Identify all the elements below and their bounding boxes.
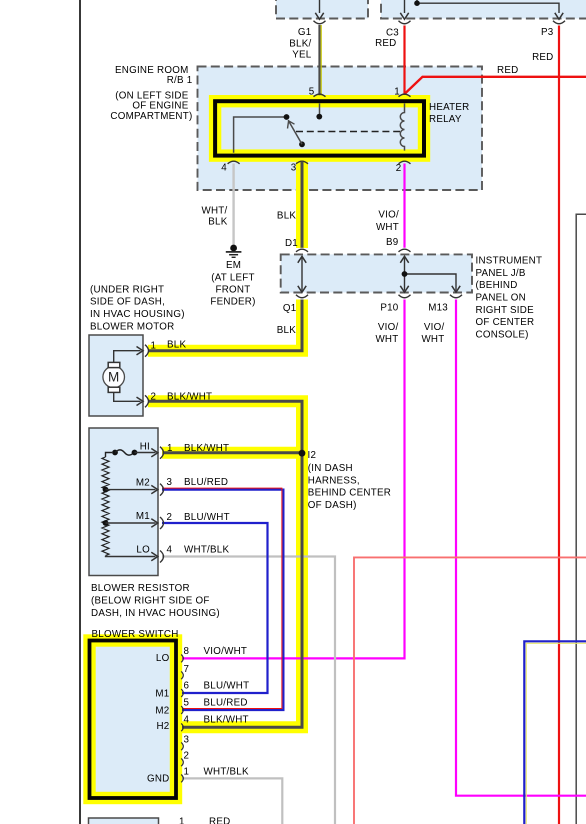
svg-text:2: 2 [167,512,173,523]
svg-text:BLU/RED: BLU/RED [204,697,248,708]
svg-text:(BELOW RIGHT SIDE OF: (BELOW RIGHT SIDE OF [91,596,210,607]
svg-text:HI: HI [140,442,150,453]
svg-text:LO: LO [156,653,170,664]
svg-text:BLK: BLK [167,340,186,351]
svg-text:5: 5 [184,697,190,708]
svg-text:M2: M2 [155,705,169,716]
svg-text:EM: EM [226,260,241,271]
svg-text:I2: I2 [308,450,317,461]
svg-text:4: 4 [221,163,227,174]
svg-text:BLU/RED: BLU/RED [184,477,228,488]
svg-text:RED: RED [209,816,230,824]
svg-text:(IN DASH: (IN DASH [308,463,353,474]
svg-text:OF ENGINE: OF ENGINE [132,101,188,112]
svg-text:WHT/BLK: WHT/BLK [184,545,230,556]
svg-text:BLU/WHT: BLU/WHT [184,512,230,523]
svg-text:R/B 1: R/B 1 [167,75,193,86]
svg-text:M13: M13 [428,302,448,313]
svg-text:BLOWER SWITCH: BLOWER SWITCH [92,629,179,640]
svg-text:M2: M2 [136,478,150,489]
svg-text:RED: RED [375,38,396,49]
svg-text:D1: D1 [285,238,298,249]
svg-text:COMPARTMENT): COMPARTMENT) [110,111,192,122]
svg-text:INSTRUMENT: INSTRUMENT [476,256,543,267]
svg-text:B9: B9 [386,237,398,248]
svg-text:WHT: WHT [421,334,444,345]
svg-text:(UNDER RIGHT: (UNDER RIGHT [90,284,164,295]
svg-text:RED: RED [532,52,553,63]
svg-text:HARNESS,: HARNESS, [308,475,360,486]
svg-text:BLU/WHT: BLU/WHT [204,681,250,692]
svg-text:1: 1 [167,443,173,454]
svg-text:BLK: BLK [277,325,296,336]
svg-text:2: 2 [396,163,402,174]
svg-text:BLOWER MOTOR: BLOWER MOTOR [90,322,174,333]
svg-text:GND: GND [147,773,170,784]
svg-text:4: 4 [167,545,173,556]
svg-text:Q1: Q1 [283,303,297,314]
svg-text:PANEL ON: PANEL ON [476,293,526,304]
svg-text:1: 1 [184,767,190,778]
svg-text:YEL: YEL [292,50,312,61]
svg-text:C3: C3 [386,28,399,39]
svg-text:H2: H2 [156,721,169,732]
svg-text:BLK: BLK [208,217,227,228]
svg-text:3: 3 [184,735,190,746]
svg-text:6: 6 [184,681,190,692]
svg-text:SIDE OF DASH,: SIDE OF DASH, [90,297,165,308]
svg-text:VIO/: VIO/ [378,210,399,221]
svg-text:DASH, IN HVAC HOUSING): DASH, IN HVAC HOUSING) [91,608,220,619]
svg-text:M1: M1 [136,511,150,522]
svg-text:4: 4 [184,715,190,726]
svg-text:RELAY: RELAY [429,114,462,125]
svg-text:G1: G1 [298,27,312,38]
svg-text:IN HVAC HOUSING): IN HVAC HOUSING) [90,309,185,320]
svg-text:1: 1 [151,341,157,352]
svg-text:LO: LO [136,545,150,556]
svg-text:3: 3 [291,163,297,174]
svg-text:BLK: BLK [277,211,296,222]
svg-text:1: 1 [179,816,185,824]
svg-text:BLK/WHT: BLK/WHT [184,443,229,454]
svg-text:BEHIND CENTER: BEHIND CENTER [308,488,391,499]
svg-text:WHT/: WHT/ [201,205,227,216]
svg-text:VIO/: VIO/ [424,322,445,333]
svg-text:2: 2 [151,392,157,403]
svg-text:BLK/: BLK/ [289,39,311,50]
svg-text:VIO/: VIO/ [378,322,399,333]
svg-text:OF CENTER: OF CENTER [476,317,535,328]
svg-text:FRONT: FRONT [216,285,251,296]
svg-text:7: 7 [184,664,190,675]
svg-text:M1: M1 [155,689,169,700]
svg-text:FENDER): FENDER) [210,297,255,308]
svg-text:WHT: WHT [376,222,399,233]
svg-text:WHT: WHT [375,334,398,345]
svg-text:P10: P10 [380,302,398,313]
svg-text:BLK/WHT: BLK/WHT [204,715,249,726]
svg-text:5: 5 [309,87,315,98]
svg-text:8: 8 [184,646,190,657]
svg-text:3: 3 [167,477,173,488]
svg-text:M: M [108,370,120,385]
svg-text:1: 1 [394,87,400,98]
svg-text:CONSOLE): CONSOLE) [476,329,529,340]
svg-text:VIO/WHT: VIO/WHT [204,646,248,657]
svg-text:(BEHIND: (BEHIND [476,280,518,291]
svg-text:2: 2 [184,751,190,762]
svg-text:HEATER: HEATER [429,102,470,113]
svg-text:BLOWER RESISTOR: BLOWER RESISTOR [91,583,190,594]
svg-text:P3: P3 [541,27,554,38]
svg-text:PANEL J/B: PANEL J/B [476,268,526,279]
svg-text:BLK/WHT: BLK/WHT [167,392,212,403]
svg-text:RED: RED [497,65,518,76]
svg-text:OF DASH): OF DASH) [308,500,357,511]
svg-text:WHT/BLK: WHT/BLK [204,767,250,778]
svg-text:(AT LEFT: (AT LEFT [211,273,255,284]
svg-text:RIGHT SIDE: RIGHT SIDE [476,305,535,316]
